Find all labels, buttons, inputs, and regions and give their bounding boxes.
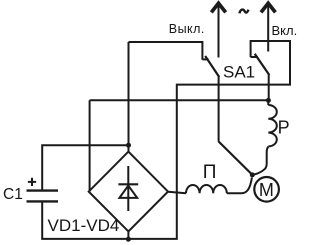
bridge bottom stub (127, 231, 129, 239)
SA1 left pole wire down (218, 77, 220, 142)
svg-text:М: М (259, 180, 274, 200)
svg-text:Выкл.: Выкл. (169, 22, 205, 36)
wire: left feed down to bridge top (128, 42, 130, 145)
coil top stub (267, 100, 269, 105)
inductor П (start winding) (186, 185, 227, 193)
wire: to capacitor C1 top (42, 145, 128, 190)
wire: AC bus to bridge (horizontal y=100) (90, 99, 269, 101)
contact arc to relay branch (252, 169, 265, 175)
SA1 right blade (255, 54, 270, 75)
mains supply arrow left (211, 3, 225, 57)
bridge rectifier VD1-VD4 diamond (89, 152, 168, 232)
C1 polarity plus (28, 178, 36, 186)
SA1 left blade (205, 56, 219, 77)
SA1 left fixed contact tick (202, 58, 208, 60)
relay coil P (268, 105, 277, 146)
bridge top stub (128, 145, 130, 153)
wire: bus drop to bridge left vertex (89, 100, 91, 191)
wire: bridge right vertex to inductor (168, 192, 186, 193)
svg-text:Вкл.: Вкл. (272, 23, 298, 38)
SA1 right pole wire down (268, 75, 270, 101)
mains supply arrow right (261, 3, 275, 51)
wire: arc up to relay coil (265, 147, 269, 169)
svg-text:SA1: SA1 (223, 63, 255, 82)
capacitor C1 plates (27, 189, 59, 191)
motor M circle (254, 177, 279, 202)
node: bottom bus junction (126, 237, 131, 242)
centrifugal switch blade (from SA1 left pole) (219, 142, 252, 175)
AC tilde label (239, 10, 248, 14)
wire: Выкл contact feed (top horizontal + drop) (129, 42, 203, 60)
diode symbol inside bridge (118, 166, 138, 211)
SA1 right fixed contact tick (251, 56, 258, 58)
wire: inductor to contact node (227, 178, 252, 194)
svg-text:П: П (203, 162, 217, 183)
wire: Вкл contact loop (up, over, down, long bottom run) (42, 41, 290, 239)
svg-text:C1: C1 (3, 186, 23, 203)
svg-text:VD1-VD4: VD1-VD4 (48, 216, 120, 235)
node: motor feed junction (250, 172, 255, 177)
node: bridge top junction (126, 143, 131, 148)
svg-text:Р: Р (278, 118, 290, 138)
node: coil/bus junction (266, 98, 271, 103)
